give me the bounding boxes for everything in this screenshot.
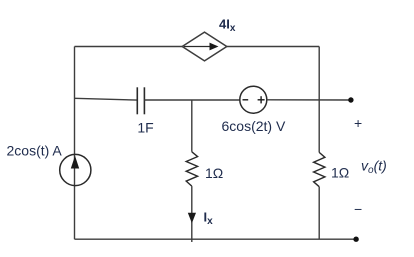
voltage source V1 6cos(2t) V — [240, 86, 267, 113]
svg-text:+: + — [354, 115, 362, 131]
svg-text:2cos(t) A: 2cos(t) A — [7, 142, 63, 158]
current source I1 2cos(t) A — [60, 154, 91, 185]
capacitor C1 1F — [137, 87, 144, 114]
resistor R2 1Ω right — [314, 152, 325, 186]
wire top-left segment — [75, 46, 184, 48]
resistor R1 1Ω middle — [186, 152, 197, 186]
svg-text:1Ω: 1Ω — [205, 165, 223, 181]
node bottom output terminal — [353, 237, 358, 242]
wire left vertical — [74, 47, 76, 240]
wire middle horizontal left stub — [75, 98, 138, 100]
wire top-right segment — [227, 46, 319, 48]
node top output terminal — [348, 97, 353, 102]
wire bottom — [75, 238, 357, 240]
wire middle vertical lower — [191, 186, 193, 242]
wire capacitor to voltage source — [144, 99, 239, 101]
svg-text:4Ix: 4Ix — [219, 17, 236, 35]
svg-text:6cos(2t) V: 6cos(2t) V — [222, 118, 286, 134]
svg-text:vo(t): vo(t) — [361, 158, 387, 177]
svg-text:1F: 1F — [137, 120, 153, 136]
wire middle vertical upper — [191, 100, 193, 152]
dependent current source U1 diamond 4Ix — [182, 32, 227, 61]
arrow Ix current direction — [188, 213, 196, 224]
wire right vertical lower — [318, 187, 320, 240]
wire voltage source to output node — [267, 99, 351, 101]
svg-text:Ix: Ix — [204, 210, 214, 228]
svg-text:1Ω: 1Ω — [331, 165, 349, 181]
wire right vertical upper — [318, 47, 320, 153]
svg-text:−: − — [354, 201, 362, 217]
